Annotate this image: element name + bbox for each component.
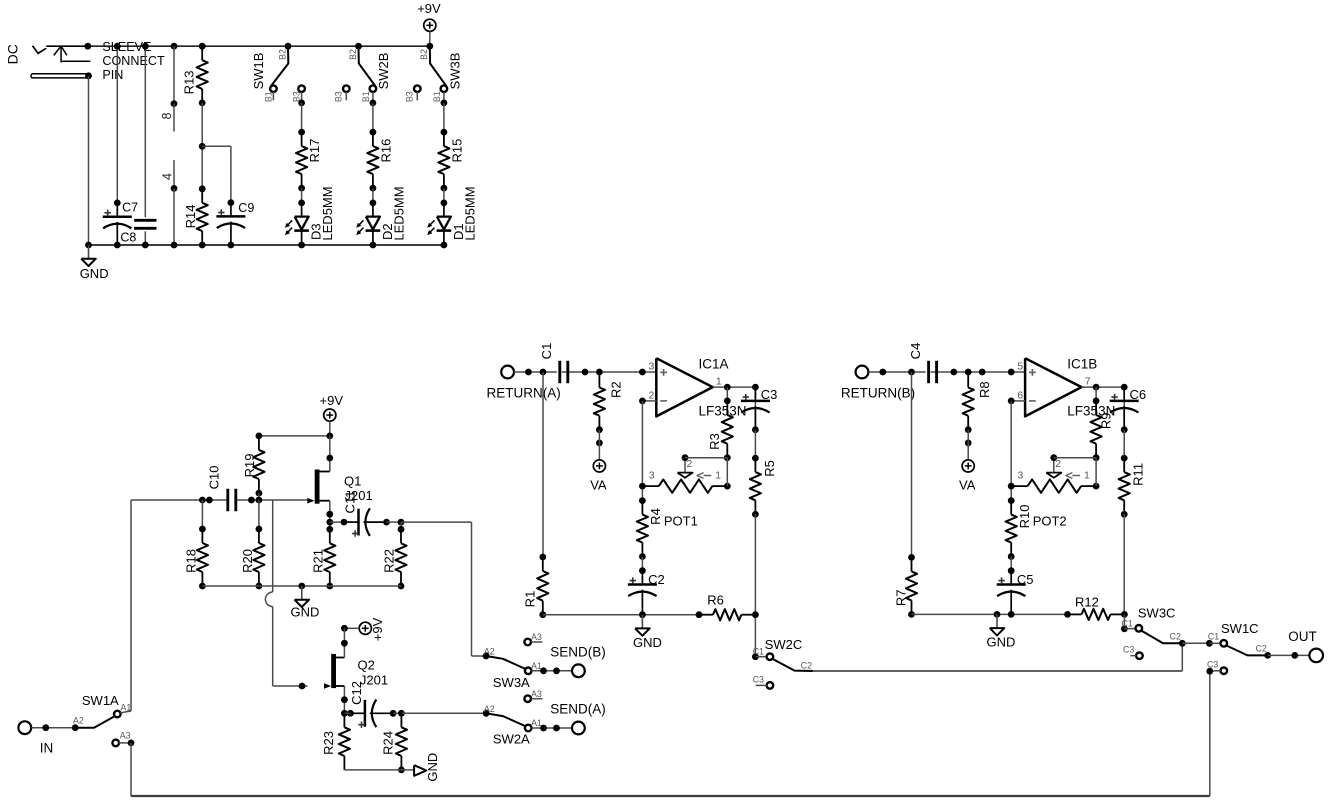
svg-text:R4: R4 [648, 508, 663, 525]
jack IN [18, 721, 31, 734]
svg-text:C1: C1 [753, 647, 764, 657]
svg-text:R5: R5 [762, 460, 777, 477]
power +9V Q2 [359, 622, 371, 634]
svg-text:R24: R24 [380, 731, 395, 755]
wire SW1A A1 up to Q1 gate [120, 711, 131, 713]
resistor R16 [370, 129, 377, 136]
wire +9V rail Q1 [259, 435, 330, 437]
pin C3 of SW2C [767, 682, 774, 689]
wire output IC1A [713, 386, 756, 388]
svg-text:B2: B2 [419, 49, 429, 60]
wire to C9 [202, 145, 231, 147]
wire SW3C to SW1C [1182, 642, 1209, 644]
svg-text:A2: A2 [484, 704, 495, 714]
svg-text:C3: C3 [1207, 660, 1218, 670]
resistor R19 [258, 436, 260, 450]
jack OUT [1309, 649, 1323, 663]
capacitor C9 [228, 199, 235, 206]
svg-text:A3: A3 [531, 632, 542, 642]
svg-text:B3: B3 [333, 91, 343, 102]
jack RETURN(A) [501, 366, 514, 379]
svg-text:R2: R2 [608, 381, 623, 398]
svg-text:VA: VA [590, 478, 607, 493]
switch SW2B [355, 43, 362, 50]
wire R13 to R14 [201, 103, 203, 189]
svg-text:R20: R20 [240, 549, 255, 573]
svg-text:C6: C6 [1130, 387, 1147, 402]
wire SW2A to SEND(A) [531, 727, 572, 729]
svg-text:C5: C5 [1017, 572, 1034, 587]
svg-text:+9V: +9V [417, 1, 441, 16]
resistor R6 [696, 611, 703, 618]
svg-text:SW3C: SW3C [1138, 606, 1176, 621]
svg-text:R23: R23 [321, 731, 336, 755]
svg-text:4: 4 [161, 173, 175, 180]
resistor R7 [911, 372, 913, 557]
resistor R18 [201, 500, 203, 529]
wire jack pin to ground rail [85, 72, 92, 79]
svg-text:LED5MM: LED5MM [392, 186, 407, 240]
wire C12 to SW2A [398, 710, 405, 717]
svg-text:SW3A: SW3A [493, 675, 530, 690]
LED D2 [372, 188, 374, 203]
svg-text:IN: IN [40, 740, 54, 755]
svg-text:C2: C2 [801, 660, 812, 670]
svg-text:IC1B: IC1B [1067, 357, 1097, 372]
svg-text:B2: B2 [348, 49, 358, 60]
resistor R8 [967, 374, 969, 388]
svg-text:+9V: +9V [370, 617, 385, 641]
svg-text:VA: VA [959, 478, 976, 493]
svg-text:C12: C12 [349, 681, 364, 705]
wire SW2C C2 to SW3C C2 [813, 670, 1182, 672]
resistor R3 [726, 387, 728, 401]
svg-text:LF353N: LF353N [699, 403, 747, 418]
capacitor C4 [926, 361, 931, 383]
svg-text:A3: A3 [531, 689, 542, 699]
svg-text:GND: GND [425, 753, 440, 782]
ground GND IC1A [641, 615, 643, 629]
svg-text:1: 1 [716, 375, 722, 387]
svg-text:R10: R10 [1017, 505, 1032, 529]
svg-text:A1: A1 [531, 661, 542, 671]
svg-text:1: 1 [1084, 470, 1090, 482]
net stub pin 8 [171, 43, 178, 50]
wire input net with hop [272, 500, 274, 592]
wire switch to R17 [298, 100, 305, 107]
svg-text:SW2B: SW2B [376, 53, 391, 90]
capacitor C7 [116, 46, 118, 203]
wire -input IC1A [642, 400, 656, 402]
svg-text:B1: B1 [263, 91, 273, 102]
svg-text:R15: R15 [449, 139, 464, 163]
pin C3 of SW1C [1221, 667, 1228, 674]
pin C3 of SW3C [1136, 652, 1143, 659]
svg-text:B1: B1 [432, 91, 442, 102]
svg-text:B2: B2 [278, 49, 288, 60]
svg-text:R13: R13 [182, 70, 197, 94]
potentiometer POT2 [1011, 485, 1027, 487]
svg-text:C1: C1 [1122, 618, 1133, 628]
wire IN to SW1A [31, 727, 75, 729]
resistor R1 [542, 372, 544, 557]
svg-text:C11: C11 [342, 491, 357, 514]
svg-text:R11: R11 [1131, 463, 1146, 486]
svg-text:R19: R19 [242, 454, 257, 478]
svg-text:J201: J201 [360, 673, 388, 688]
wire bus riser to SW1C C3 [1209, 671, 1211, 796]
wire RETURN(B) to op-amp +input [869, 371, 1026, 373]
jack SEND(B) [572, 664, 585, 677]
svg-text:SW1A: SW1A [82, 693, 119, 708]
svg-text:R7: R7 [894, 589, 909, 606]
capacitor C1 [557, 361, 562, 383]
wire R23 R24 ground link [344, 769, 414, 771]
wire IC1B ground rail [912, 613, 1068, 615]
wire switch to R15 [441, 100, 448, 107]
svg-text:SW1C: SW1C [1221, 621, 1259, 636]
svg-text:C2: C2 [1256, 643, 1267, 653]
capacitor C10 [226, 489, 229, 511]
svg-text:DC: DC [5, 44, 21, 64]
svg-text:C3: C3 [761, 387, 778, 402]
svg-text:GND: GND [291, 605, 320, 620]
resistor R11 [1123, 430, 1125, 458]
jack RETURN(B) [856, 366, 869, 379]
power +9V Q1 [324, 409, 336, 421]
svg-text:POT2: POT2 [1033, 513, 1067, 528]
svg-text:RETURN(B): RETURN(B) [841, 386, 915, 401]
svg-text:C2: C2 [648, 572, 665, 587]
wire switch to R16 [370, 100, 377, 107]
svg-text:C1: C1 [1208, 631, 1219, 641]
svg-text:+9V: +9V [320, 393, 344, 408]
jack SEND(A) [572, 722, 585, 735]
wire -input IC1B [1011, 400, 1025, 402]
svg-text:GND: GND [80, 266, 109, 281]
switch SW3B [426, 43, 433, 50]
resistor R23 [343, 713, 345, 727]
power VA IC1A [593, 460, 605, 472]
switch SW1A [72, 724, 79, 731]
wire RETURN(A) to op-amp +input [514, 371, 656, 373]
svg-text:R3: R3 [707, 433, 722, 450]
svg-text:GND: GND [987, 635, 1016, 650]
resistor R17 [298, 129, 305, 136]
wire SW1C C2 to OUT [1268, 654, 1310, 656]
capacitor C5 [1010, 557, 1012, 571]
DC power jack J-DC [33, 46, 47, 54]
capacitor C2 [641, 557, 643, 571]
svg-text:SW2C: SW2C [765, 637, 803, 652]
svg-text:GND: GND [633, 635, 662, 650]
svg-text:R17: R17 [307, 139, 322, 163]
capacitor C6 [1123, 387, 1125, 430]
svg-text:3: 3 [648, 361, 654, 373]
svg-text:R14: R14 [183, 205, 198, 229]
svg-text:2: 2 [687, 458, 693, 470]
ground GND power-entry [88, 245, 90, 259]
node sleeve junction [84, 43, 91, 50]
power VA IC1B [962, 460, 974, 472]
resistor R20 [258, 500, 260, 529]
resistor R4 [639, 497, 646, 504]
LED D3 [301, 188, 303, 203]
svg-text:R22: R22 [382, 549, 397, 573]
svg-text:R8: R8 [977, 381, 992, 398]
resistor R13 [199, 43, 206, 50]
resistor R9 [1095, 387, 1097, 401]
resistor R14 [199, 185, 206, 192]
switch SW2C [752, 653, 759, 660]
svg-text:LED5MM: LED5MM [463, 186, 478, 240]
svg-text:RETURN(A): RETURN(A) [487, 386, 561, 401]
wire IC1A ground rail [543, 614, 699, 616]
svg-text:3: 3 [1018, 470, 1024, 482]
svg-text:A2: A2 [73, 715, 84, 725]
svg-text:C4: C4 [908, 343, 923, 360]
svg-text:B1: B1 [361, 91, 371, 102]
svg-text:C9: C9 [238, 201, 254, 215]
capacitor C12 [341, 710, 348, 717]
svg-text:2: 2 [1055, 458, 1061, 470]
svg-text:Q2: Q2 [358, 658, 375, 673]
svg-text:C3: C3 [753, 674, 764, 684]
svg-text:POT1: POT1 [664, 513, 698, 528]
transistor Q1 J201 [315, 470, 320, 504]
resistor R12 [1064, 611, 1071, 618]
wire SW3A to SEND(B) [531, 670, 572, 672]
svg-text:LED5MM: LED5MM [320, 186, 335, 240]
wire SW1A A3 to ground bus [128, 740, 135, 747]
svg-text:B3: B3 [404, 91, 414, 102]
wire Q1 gate net [131, 499, 227, 501]
wire C11 to SW3A [398, 519, 405, 526]
svg-text:A3: A3 [120, 731, 131, 741]
svg-text:8: 8 [160, 112, 174, 119]
ground GND Q2 (right-pointing) [414, 765, 426, 776]
svg-text:1: 1 [715, 470, 721, 482]
resistor R10 [1008, 497, 1015, 504]
svg-text:OUT: OUT [1288, 629, 1317, 644]
svg-text:C10: C10 [207, 466, 222, 490]
svg-text:A2: A2 [484, 647, 495, 657]
op-amp IC1A LF353N [656, 358, 712, 416]
svg-text:R6: R6 [707, 593, 724, 608]
ground GND Q1 [298, 583, 305, 590]
svg-text:SEND(B): SEND(B) [550, 645, 606, 660]
wire bottom ground bus [131, 795, 1210, 797]
svg-text:SEND(A): SEND(A) [550, 701, 606, 716]
svg-text:PIN: PIN [102, 68, 123, 82]
svg-text:R21: R21 [311, 549, 326, 573]
svg-text:C1: C1 [539, 343, 554, 360]
svg-text:CONNECT: CONNECT [102, 54, 165, 68]
wire ground rail top-left [89, 244, 444, 246]
svg-text:R18: R18 [184, 549, 199, 573]
svg-text:5: 5 [1017, 361, 1023, 373]
svg-text:SW1B: SW1B [251, 53, 266, 90]
wire output IC1B [1082, 386, 1125, 388]
svg-text:R9: R9 [1099, 412, 1114, 429]
net stub pin 4 [173, 160, 175, 188]
svg-text:SW3B: SW3B [447, 53, 462, 90]
svg-text:2: 2 [648, 390, 654, 402]
power +9V top [424, 19, 436, 31]
op-amp IC1B LF353N [1025, 358, 1081, 416]
capacitor C8 [144, 46, 146, 217]
transistor Q2 J201 [331, 654, 336, 688]
potentiometer POT1 [642, 485, 658, 487]
ground GND IC1B [996, 614, 998, 628]
capacitor C3 [754, 387, 756, 430]
svg-text:A1: A1 [531, 718, 542, 728]
svg-text:C3: C3 [1123, 645, 1134, 655]
wire +9V top rail [88, 45, 430, 47]
svg-text:IC1A: IC1A [699, 357, 729, 372]
switch SW1B [285, 43, 292, 50]
resistor R15 [441, 129, 448, 136]
wire Q1 ground rail [202, 585, 401, 587]
svg-text:C8: C8 [120, 230, 136, 244]
svg-text:R12: R12 [1075, 595, 1099, 610]
switch SW3A [472, 655, 487, 657]
svg-text:R16: R16 [378, 139, 393, 163]
resistor R24 [400, 712, 402, 714]
svg-text:SW2A: SW2A [493, 732, 530, 747]
resistor R5 [754, 430, 756, 458]
LED D1 [443, 188, 445, 203]
switch SW1C [1209, 642, 1220, 644]
capacitor C11 [330, 521, 344, 523]
resistor R2 [598, 374, 600, 388]
svg-text:3: 3 [649, 470, 655, 482]
svg-text:C2: C2 [1170, 631, 1181, 641]
svg-text:R1: R1 [523, 591, 538, 608]
resistor R21 [326, 526, 333, 533]
svg-text:6: 6 [1017, 390, 1023, 402]
svg-text:C7: C7 [122, 201, 138, 215]
switch SW2A [483, 710, 490, 717]
resistor R22 [400, 522, 402, 529]
svg-text:7: 7 [1085, 375, 1091, 387]
switch SW3C [1123, 614, 1125, 628]
svg-text:Q1: Q1 [344, 474, 361, 489]
